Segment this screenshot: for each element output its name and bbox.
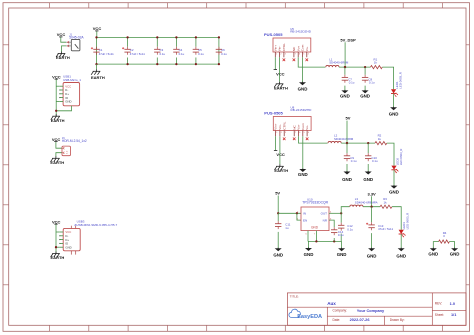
svg-text:PUS-0505: PUS-0505 — [264, 111, 283, 116]
svg-text:0.1u: 0.1u — [179, 52, 185, 56]
svg-text:SD4040-6R8M: SD4040-6R8M — [334, 137, 354, 141]
svg-text:3.3V: 3.3V — [368, 191, 377, 196]
svg-text:VCC: VCC — [276, 152, 285, 157]
svg-text:3: 3 — [285, 54, 286, 56]
svg-text:OUT: OUT — [321, 212, 328, 216]
svg-text:2022-07-26: 2022-07-26 — [350, 317, 371, 322]
svg-text:RB-2415DZHD: RB-2415DZHD — [291, 108, 313, 112]
svg-text:0.1u: 0.1u — [160, 52, 166, 56]
svg-text:VCC: VCC — [52, 137, 61, 142]
svg-text:GND: GND — [389, 190, 399, 195]
svg-text:Aux: Aux — [327, 301, 336, 306]
svg-text:Vo-: Vo- — [305, 125, 309, 130]
svg-text:EARTH: EARTH — [51, 255, 65, 260]
svg-text:VCC: VCC — [93, 26, 102, 31]
svg-text:Date:: Date: — [333, 318, 341, 322]
svg-text:Your Company: Your Company — [357, 308, 385, 313]
svg-text:1: 1 — [276, 132, 277, 134]
svg-text:VCC: VCC — [52, 219, 61, 224]
svg-text:GND: GND — [389, 111, 399, 116]
svg-text:0.1u: 0.1u — [221, 52, 227, 56]
svg-text:EARTH: EARTH — [274, 86, 288, 91]
svg-text:4: 4 — [308, 132, 309, 134]
svg-text:4: 4 — [308, 54, 309, 56]
svg-text:7: 7 — [295, 54, 296, 56]
svg-text:GND: GND — [311, 225, 319, 229]
svg-text:LED 0603_R: LED 0603_R — [399, 149, 403, 166]
svg-text:RB-2415DZHD: RB-2415DZHD — [290, 30, 312, 34]
svg-text:EARTH: EARTH — [51, 118, 65, 123]
svg-text:SD4040-6R8MPA: SD4040-6R8MPA — [355, 200, 378, 204]
svg-text:3: 3 — [285, 132, 286, 134]
svg-text:Drawn By:: Drawn By: — [390, 318, 405, 322]
svg-text:EARTH: EARTH — [56, 55, 70, 60]
svg-text:VCC: VCC — [276, 72, 285, 77]
svg-text:GND: GND — [342, 177, 352, 182]
svg-text:GND: GND — [65, 100, 71, 104]
svg-text:0.1u: 0.1u — [198, 52, 204, 56]
svg-text:0.1u: 0.1u — [372, 159, 378, 163]
svg-text:VCC: VCC — [52, 74, 61, 79]
svg-text:0.1u: 0.1u — [369, 81, 375, 85]
svg-text:GND: GND — [298, 86, 308, 91]
svg-text:REV:: REV: — [435, 301, 442, 305]
svg-text:1: 1 — [276, 54, 277, 56]
svg-text:GND: GND — [428, 252, 438, 257]
svg-text:0.1u: 0.1u — [349, 81, 355, 85]
svg-text:VCC: VCC — [57, 32, 66, 37]
svg-text:1/1: 1/1 — [451, 312, 457, 317]
svg-text:5045-02A: 5045-02A — [69, 35, 84, 39]
svg-text:PUS-0505: PUS-0505 — [264, 32, 283, 37]
svg-text:5: 5 — [303, 54, 304, 56]
svg-text:GND: GND — [340, 93, 350, 98]
svg-text:EARTH: EARTH — [50, 160, 64, 165]
svg-text:2: 2 — [280, 54, 281, 56]
svg-text:7: 7 — [295, 132, 296, 134]
svg-text:LED 0603_R: LED 0603_R — [399, 72, 403, 89]
svg-text:0.1u: 0.1u — [351, 159, 357, 163]
svg-text:2: 2 — [281, 132, 282, 134]
svg-text:CTRL: CTRL — [282, 121, 286, 129]
svg-text:Vo-: Vo- — [305, 47, 309, 52]
svg-text:6: 6 — [299, 132, 300, 134]
svg-text:LED 0603_R: LED 0603_R — [406, 213, 410, 230]
svg-text:GND: GND — [450, 252, 460, 257]
svg-text:EARTH: EARTH — [274, 168, 288, 173]
svg-text:GND: GND — [396, 253, 406, 258]
svg-text:5: 5 — [304, 132, 305, 134]
svg-text:USB-Micro_1: USB-Micro_1 — [63, 78, 81, 82]
svg-text:IN: IN — [303, 212, 306, 216]
svg-text:EARTH: EARTH — [91, 75, 105, 80]
svg-text:1.0: 1.0 — [450, 301, 455, 306]
svg-text:EN: EN — [303, 219, 307, 223]
svg-text:TPS79333DCQR: TPS79333DCQR — [302, 201, 329, 205]
svg-text:5V: 5V — [275, 191, 280, 196]
svg-text:6: 6 — [299, 54, 300, 56]
svg-text:Sheet:: Sheet: — [435, 313, 444, 317]
svg-text:0.1u: 0.1u — [347, 228, 353, 232]
svg-text:GND: GND — [337, 252, 347, 257]
svg-text:47uF / 5x11: 47uF / 5x11 — [99, 52, 114, 56]
svg-text:47uF / 5x11: 47uF / 5x11 — [378, 227, 393, 231]
svg-text:GND: GND — [363, 177, 373, 182]
svg-text:GND: GND — [65, 245, 71, 249]
svg-text:Company:: Company: — [333, 309, 348, 313]
svg-text:1u: 1u — [285, 226, 289, 230]
svg-text:GND: GND — [304, 252, 314, 257]
svg-text:GND: GND — [273, 253, 283, 258]
svg-text:HDR-M-2.54_1x2: HDR-M-2.54_1x2 — [62, 139, 87, 143]
svg-text:47uF / 5x11: 47uF / 5x11 — [130, 52, 145, 56]
svg-text:GND: GND — [367, 253, 377, 258]
svg-text:5V: 5V — [346, 116, 351, 121]
svg-text:ZUSB-MINI-SMD-9.055-4-H5.7: ZUSB-MINI-SMD-9.055-4-H5.7 — [74, 223, 117, 227]
svg-text:CTRL: CTRL — [282, 43, 286, 51]
svg-text:0.1u: 0.1u — [338, 233, 344, 237]
svg-text:GND: GND — [298, 172, 308, 177]
svg-text:SD4040-6R8M: SD4040-6R8M — [329, 61, 349, 65]
svg-text:EasyEDA: EasyEDA — [297, 314, 322, 320]
svg-text:TITLE:: TITLE: — [290, 295, 299, 299]
svg-text:1k: 1k — [378, 137, 382, 141]
svg-text:1k: 1k — [374, 61, 378, 65]
svg-text:GND: GND — [360, 93, 370, 98]
svg-text:5V_DSP: 5V_DSP — [340, 37, 356, 42]
